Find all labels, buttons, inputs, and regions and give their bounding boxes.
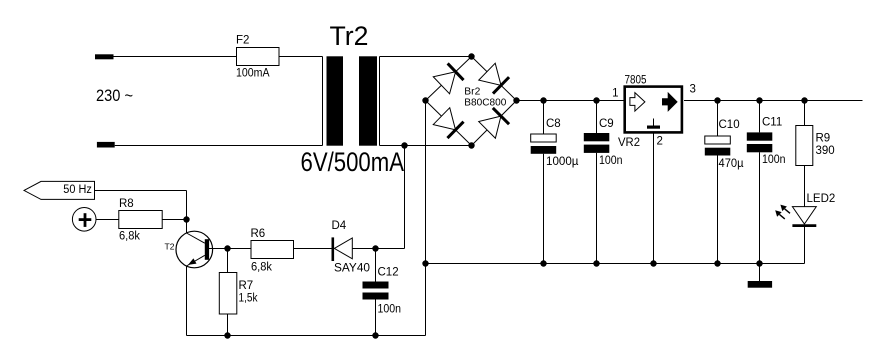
wire regulator pin2 to ground — [653, 134, 655, 264]
wire N terminal to transformer primary — [115, 145, 323, 147]
svg-text:T2: T2 — [165, 241, 175, 251]
node D4 C12 — [372, 245, 378, 251]
svg-text:SAY40: SAY40 — [334, 263, 370, 275]
node riser secondary — [401, 142, 407, 148]
node ground rail at bridge minus — [422, 260, 428, 266]
wire emitter down — [186, 266, 188, 336]
svg-text:R8: R8 — [119, 198, 134, 210]
svg-text:LED2: LED2 — [807, 193, 836, 205]
wire bridge side left-bottom — [426, 101, 472, 146]
bridge rectifier Br2 diode top-right — [479, 63, 510, 94]
source plus terminal — [72, 208, 96, 232]
node C9 top — [593, 97, 599, 103]
capacitor C8 — [531, 101, 579, 264]
svg-text:F2: F2 — [236, 35, 249, 47]
svg-text:R7: R7 — [239, 280, 254, 292]
node C11 top — [756, 97, 762, 103]
capacitor C10 — [705, 101, 744, 264]
svg-text:D4: D4 — [332, 220, 347, 232]
bridge rectifier Br2 diode bottom-right — [479, 108, 510, 139]
wire node vertical — [186, 191, 188, 234]
svg-text:C10: C10 — [719, 119, 740, 131]
svg-text:7805: 7805 — [625, 75, 647, 87]
svg-text:50 Hz: 50 Hz — [63, 184, 92, 196]
terminal: mains input L — [95, 54, 114, 59]
terminal: mains input N — [97, 142, 115, 148]
wire D4 node to riser — [376, 248, 405, 250]
node C8 bottom — [540, 260, 546, 266]
svg-text:1,5k: 1,5k — [239, 292, 258, 304]
wire secondary to bridge AC top — [380, 56, 472, 58]
wire ground rail — [426, 263, 805, 265]
wire bridge side bottom-right — [472, 101, 517, 146]
svg-text:R6: R6 — [251, 228, 266, 240]
diode D4 — [332, 220, 376, 275]
bridge rectifier Br2 diode left-top — [433, 63, 463, 94]
svg-text:100mA: 100mA — [236, 68, 270, 80]
svg-text:Br2: Br2 — [464, 87, 480, 98]
resistor R9 — [796, 101, 835, 207]
svg-text:230 ~: 230 ~ — [96, 86, 133, 105]
svg-text:6,8k: 6,8k — [251, 262, 272, 274]
capacitor C9 — [584, 101, 623, 264]
node C12 bottom — [372, 332, 378, 338]
node C8 top — [540, 97, 546, 103]
svg-text:100n: 100n — [762, 154, 786, 166]
node base R6 R7 — [224, 245, 230, 251]
wire R8 to node — [162, 219, 186, 221]
resistor R8 — [119, 198, 162, 243]
svg-text:C8: C8 — [546, 118, 561, 130]
node pin2 ground — [650, 260, 656, 266]
resistor R7 — [219, 249, 257, 336]
svg-text:390: 390 — [816, 145, 835, 157]
svg-text:470µ: 470µ — [719, 158, 744, 170]
wire plus to R8 — [96, 219, 119, 221]
wire riser to secondary bottom — [404, 146, 406, 249]
svg-text:C9: C9 — [599, 118, 614, 130]
ground — [748, 264, 772, 288]
svg-text:6,8k: 6,8k — [119, 231, 140, 243]
node 50Hz flag — [24, 181, 95, 199]
svg-text:100n: 100n — [599, 155, 623, 167]
voltage regulator U VR2 7805 — [618, 75, 682, 149]
node R9 top — [801, 97, 807, 103]
LED2 emission arrows — [775, 205, 790, 219]
wire secondary to bridge AC bottom — [380, 145, 472, 147]
bridge rectifier Br2 diode left-bottom — [433, 108, 464, 139]
node bridge AC top — [468, 53, 474, 59]
svg-text:1: 1 — [612, 87, 618, 99]
capacitor C12 — [363, 249, 402, 336]
node bridge plus — [513, 97, 519, 103]
wire lower rail — [187, 335, 426, 337]
node C11 bottom — [756, 260, 762, 266]
wire transformer secondary vertical — [379, 57, 381, 146]
wire fuse to transformer primary — [279, 56, 323, 58]
svg-text:B80C800: B80C800 — [464, 98, 506, 109]
svg-text:3: 3 — [690, 84, 696, 96]
svg-text:R9: R9 — [816, 133, 831, 145]
wire transformer primary vertical — [322, 57, 324, 146]
wire bridge plus to regulator input — [517, 100, 625, 102]
wire flag to node — [95, 190, 187, 192]
svg-text:1000µ: 1000µ — [546, 156, 579, 168]
LED LED2 — [792, 193, 835, 264]
fuse F2 — [236, 35, 279, 80]
node R7 bottom — [224, 332, 230, 338]
svg-text:C11: C11 — [762, 117, 782, 129]
capacitor C11 — [747, 101, 786, 264]
svg-text:100n: 100n — [378, 304, 402, 316]
svg-text:2: 2 — [657, 135, 663, 147]
label Br2 B80C800 — [464, 87, 506, 109]
wire bridge side left-top — [426, 57, 472, 101]
svg-text:VR2: VR2 — [618, 137, 640, 149]
resistor R6 — [228, 228, 332, 274]
wire bridge side top-right — [472, 57, 517, 101]
transformer Tr2 — [301, 21, 405, 177]
svg-text:Tr2: Tr2 — [330, 21, 369, 51]
node C9 bottom — [593, 260, 599, 266]
svg-text:6V/500mA: 6V/500mA — [301, 147, 405, 177]
node C10 bottom — [714, 260, 720, 266]
node bridge AC bottom — [468, 142, 474, 148]
node R8 collector — [183, 216, 189, 222]
node C10 top — [714, 97, 720, 103]
svg-text:C12: C12 — [378, 267, 399, 279]
wire L terminal to fuse — [114, 56, 237, 58]
wire bridge minus down to ground — [425, 101, 427, 336]
wire regulator output rail — [684, 100, 863, 102]
transistor T2 — [165, 231, 228, 268]
node bridge minus — [422, 97, 428, 103]
